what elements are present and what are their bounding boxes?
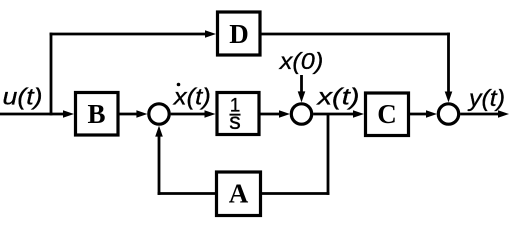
svg-text:s: s: [229, 108, 241, 134]
svg-text:B: B: [87, 99, 105, 129]
summing junction S3: [438, 104, 458, 124]
wire: integrator to sum S2: [259, 110, 290, 118]
node: branch of u(t) up to D: [50, 33, 53, 116]
svg-text:x(t): x(t): [173, 84, 211, 110]
integrator block 1/s: [217, 93, 259, 135]
block B: [76, 93, 119, 136]
svg-text:x(0): x(0): [279, 48, 324, 74]
wire: input u(t) into B: [0, 110, 74, 118]
node: branch of x(t) down to A: [327, 114, 330, 195]
label x-dot(t): text: [173, 84, 211, 110]
svg-text:x(t): x(t): [316, 84, 359, 110]
svg-text:C: C: [377, 99, 397, 129]
label u(t): [3, 84, 43, 110]
wire: output y(t): [460, 110, 509, 118]
label x(t): [316, 84, 359, 110]
wire: top line into D: [50, 30, 216, 38]
svg-text:u(t): u(t): [3, 84, 43, 110]
wire: S1 to integrator: [171, 110, 216, 118]
wire: S2 to C: [313, 110, 364, 118]
wire: feedback run from branch to A: [261, 192, 329, 195]
wire: down into sum S3 from D: [445, 33, 453, 103]
svg-text:A: A: [229, 179, 249, 209]
wire: D output across to right corner: [260, 33, 450, 36]
wire: feedback up into S1: [155, 126, 163, 195]
summing junction S2: [291, 104, 311, 124]
label x-dot(t): dot: [177, 83, 181, 87]
wire: B to sum S1: [118, 110, 147, 118]
block A: [217, 172, 261, 216]
svg-text:y(t): y(t): [467, 85, 505, 111]
label y(t): [467, 85, 505, 111]
block D: [218, 12, 261, 55]
summing junction S1: [149, 104, 169, 124]
wire: A output back left: [158, 192, 216, 195]
wire: x(0) initial condition into S2: [298, 75, 306, 102]
label x(0): [279, 48, 324, 74]
wire: C to sum S3: [409, 110, 437, 118]
svg-text:D: D: [229, 19, 249, 49]
block C: [366, 93, 409, 136]
